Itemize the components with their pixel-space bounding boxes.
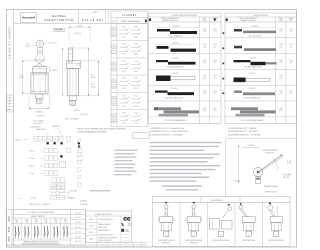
svg-text:GLP xxx: GLP xxx <box>29 151 35 153</box>
svg-text:-40 C +85: -40 C +85 <box>75 217 81 219</box>
svg-text:10 N: 10 N <box>279 76 282 78</box>
svg-text:11 12: 11 12 <box>122 71 126 73</box>
figure 5 panel 3 lever top dark dot <box>228 204 230 206</box>
svg-text:10 N: 10 N <box>213 28 216 30</box>
svg-text:33 34: 33 34 <box>134 105 138 107</box>
figure 2 row 6 separator <box>111 109 148 111</box>
ordering tree option row E boxes <box>52 178 56 183</box>
svg-text:3.14 (79.8): 3.14 (79.8) <box>172 73 179 75</box>
figure 4 row 1 dark nub <box>234 29 242 32</box>
svg-text:2 : 1: 2 : 1 <box>125 245 128 247</box>
ratings table switch symbol 5 <box>53 226 55 239</box>
svg-text:11 12: 11 12 <box>122 88 126 90</box>
ratings table column line 4 <box>50 218 52 240</box>
figure 3 row 1 lever bar short segment <box>157 29 170 32</box>
svg-text:HONEYWELL INC FREEPORT: HONEYWELL INC FREEPORT <box>99 237 118 239</box>
figure 5 panel switch lever top dark dot <box>165 202 167 204</box>
figure 3 row 6 dark nub <box>154 107 158 110</box>
svg-text:R01 1xx: R01 1xx <box>29 166 35 168</box>
figure 4 row 4 rod outline <box>246 78 270 81</box>
figure 5 panel number box <box>246 231 251 236</box>
svg-text:21 22: 21 22 <box>122 113 126 115</box>
svg-text:HIGH ACTUATION: HIGH ACTUATION <box>253 14 268 17</box>
svg-text:21 22: 21 22 <box>122 26 126 28</box>
svg-text:10 N: 10 N <box>289 44 292 46</box>
figure 2 row 4 contact circuit diagram <box>120 81 127 83</box>
svg-text:-40 C +85: -40 C +85 <box>75 241 81 243</box>
notes list rev box <box>133 133 150 139</box>
ratings table column header band <box>12 222 71 224</box>
figure 5 panel number box <box>164 231 169 236</box>
svg-text:13 14: 13 14 <box>134 113 138 115</box>
svg-text:11 12: 11 12 <box>122 36 126 38</box>
svg-text:10 N: 10 N <box>213 76 216 78</box>
figure 4 title row <box>225 16 296 18</box>
ratings table switch symbol 4 <box>43 226 45 239</box>
svg-text:4: 4 <box>44 139 45 141</box>
svg-text:1.57 [39.9]: 1.57 [39.9] <box>36 116 44 118</box>
ordering tree option row C large box <box>59 162 66 168</box>
svg-text:CKT: CKT <box>112 21 115 23</box>
svg-text:2.0 (50.8): 2.0 (50.8) <box>252 26 258 28</box>
figure 4 row 2 gray bar <box>244 48 276 51</box>
figure 4 row 1 dimension marks <box>234 26 276 28</box>
notes list marker boxes column <box>78 139 81 142</box>
svg-text:OPER.: OPER. <box>279 18 284 20</box>
UL diagonal mark <box>122 223 124 226</box>
figure 4 row 3 gray extension <box>266 62 277 64</box>
figure 4 row 3 lever bar thin black <box>234 60 251 62</box>
svg-text:1.50 (38.1): 1.50 (38.1) <box>171 88 178 90</box>
svg-text:33 34: 33 34 <box>134 54 138 56</box>
svg-text:0X: 0X <box>54 139 56 141</box>
svg-text:CHK BY: CHK BY <box>89 225 94 227</box>
figure 3 row 4 lever black block <box>156 76 171 82</box>
svg-text:-40 C +85: -40 C +85 <box>75 227 81 229</box>
figure 3 row separator 6 <box>148 116 221 118</box>
svg-text:3.14 (79.8): 3.14 (79.8) <box>249 73 256 75</box>
ratings table switch symbol 1 <box>14 226 16 239</box>
svg-text:2.50: 2.50 <box>20 75 23 77</box>
figure 2 row 2 ckt boxes <box>112 45 116 49</box>
svg-text:0X: 0X <box>49 139 51 141</box>
figure 1 front view bottom dimension line <box>29 107 49 109</box>
svg-text:[106.7]: [106.7] <box>91 86 96 88</box>
notes paragraph lines <box>150 142 222 144</box>
svg-text:O .31 [7.9]: O .31 [7.9] <box>233 180 240 182</box>
figure 2 header dark mark <box>145 20 147 23</box>
svg-text:21-22: 21-22 <box>54 224 58 226</box>
svg-text:SEE NOTE: SEE NOTE <box>52 126 60 128</box>
figure 1 side view centerline <box>72 46 74 107</box>
lever figure top dimension arrows <box>243 146 261 148</box>
figure 2 row 5 ckt boxes <box>112 96 116 100</box>
figure 1 front view left dimension chain <box>22 60 24 94</box>
figure 5 panel 5 roller circle <box>268 205 273 210</box>
svg-text:AC15: AC15 <box>8 236 11 242</box>
figure 2 header row <box>111 22 148 24</box>
figure 4 row separator 2 <box>225 53 296 55</box>
ratings table column line 5 <box>60 218 62 240</box>
figure 1 side view body <box>67 69 78 96</box>
svg-text:10 N: 10 N <box>203 91 206 93</box>
figure 3 row 3 lever bar short segment <box>156 60 168 62</box>
bottom title block header row <box>86 215 132 217</box>
svg-text:FORCE: FORCE <box>202 20 207 22</box>
svg-text:13 14: 13 14 <box>134 95 138 97</box>
figure 2 table outline <box>111 11 148 127</box>
figure 2 row 4 separator <box>111 74 148 76</box>
figure 3 row separator 4 <box>148 84 221 86</box>
ordering tree option row G boxes <box>52 193 56 198</box>
figure 5 panel 4 switch body <box>242 217 255 223</box>
svg-text:7.16: 7.16 <box>91 75 94 77</box>
svg-text:LOW ACTUATION FOR LEVERS: LOW ACTUATION FOR LEVERS <box>172 14 198 17</box>
figure 3 title row <box>148 16 221 18</box>
figure 2 row 2 contact circuit diagram <box>120 46 127 48</box>
figure 5 panel number box <box>273 231 278 236</box>
svg-text:OPER.: OPER. <box>202 18 207 20</box>
svg-text:11 12: 11 12 <box>122 105 126 107</box>
svg-text:10 N: 10 N <box>203 60 206 62</box>
figure 4 row 1 gray bar <box>243 31 276 34</box>
figure 3 row 2 lever bar short segment <box>157 46 169 49</box>
certification circle mark <box>128 223 131 226</box>
figure 2 row 1 contact circuit diagram <box>120 29 127 31</box>
figure 4 row 5 gray nub <box>234 91 242 93</box>
svg-text:0X: 0X <box>60 139 62 141</box>
figure 3 row 2 dimension marks <box>156 43 196 45</box>
svg-text:10 N: 10 N <box>279 91 282 93</box>
svg-text:SHOWN (TYP): SHOWN (TYP) <box>265 153 275 155</box>
svg-text:21 22: 21 22 <box>122 78 126 80</box>
figure 3 row 3 lever bar long segment <box>168 62 196 65</box>
figure 2 title row <box>111 17 148 19</box>
figure 3 row 5 lever bar short segment <box>155 91 168 93</box>
svg-text:21 22: 21 22 <box>122 95 126 97</box>
lever figure vertical dimension line <box>238 145 240 183</box>
svg-text:13 14: 13 14 <box>134 78 138 80</box>
notes list bottom text line <box>90 190 110 192</box>
svg-text:S A F E T Y S W I T C H: S A F E T Y S W I T C H <box>44 18 73 22</box>
figure 4 row 4 black block <box>234 78 246 83</box>
figure 5 panel switch drawing <box>192 205 196 209</box>
ordering tree main row boxes group 1 <box>34 136 38 141</box>
ratings table left narrow column <box>11 210 13 245</box>
figure 3 table outline <box>148 13 221 124</box>
ratings table column line 2 <box>30 218 32 240</box>
figure 1 front view body <box>31 73 48 94</box>
figure 5 header label cell <box>201 196 240 202</box>
CE mark <box>123 217 127 221</box>
svg-text:[63.5]: [63.5] <box>20 77 24 79</box>
figure 4 column lines <box>275 17 277 124</box>
svg-text:[27.9]: [27.9] <box>26 46 30 48</box>
ratings table column line 1 <box>21 218 23 240</box>
ratings table switch symbol 3 <box>34 226 36 239</box>
figure 4 table outline <box>225 13 296 124</box>
figure 1 front view centerline <box>39 39 41 109</box>
figure 3 header row <box>148 21 221 23</box>
svg-text:4.20: 4.20 <box>91 84 94 86</box>
svg-text:M20 X 1.5 CONDUIT: M20 X 1.5 CONDUIT <box>65 119 79 121</box>
figure 5 outer box <box>153 202 291 246</box>
figure 3 header second dark mark <box>214 18 216 20</box>
ratings table switch symbol 2 <box>24 226 26 239</box>
figure 5 panel switch drawing <box>164 205 168 209</box>
svg-text:-40 C +85: -40 C +85 <box>75 222 81 224</box>
svg-text:1.57 [39.9]: 1.57 [39.9] <box>80 114 88 116</box>
svg-text:21-22: 21-22 <box>44 224 48 226</box>
figure 4 left margin row marks <box>222 32 224 34</box>
ordering tree option row B black square <box>60 155 62 157</box>
svg-text:1.18 [30.0]: 1.18 [30.0] <box>35 112 43 114</box>
svg-text:G L O B A L: G L O B A L <box>52 14 67 18</box>
svg-text:LEVER GLZ51: LEVER GLZ51 <box>162 242 171 244</box>
figure 5 panel divider 4 <box>262 202 264 246</box>
figure 2 row 5 contact circuit diagram <box>120 98 127 100</box>
figure 4 row 3 lever bar thick black <box>251 62 266 65</box>
svg-text:Honeywell: Honeywell <box>22 16 36 20</box>
figure 1 front view mounting holes <box>32 74 34 76</box>
svg-text:10 N: 10 N <box>289 28 292 30</box>
bottom title block left column <box>96 216 98 242</box>
figure 4 row separator 4 <box>225 84 296 86</box>
figure 3 row separator 3 <box>148 68 221 70</box>
ratings table switch symbols row <box>12 239 71 241</box>
svg-text:10 N: 10 N <box>213 44 216 46</box>
figure 5 panel number box <box>191 231 196 236</box>
figure 2 row 5 separator <box>111 91 148 93</box>
figure 1 front view lever fork <box>37 47 39 54</box>
svg-text:1.50 (38.1): 1.50 (38.1) <box>173 26 180 28</box>
svg-text:13 14: 13 14 <box>134 61 138 63</box>
svg-text:.50 [12.7]: .50 [12.7] <box>74 33 81 35</box>
svg-text:10 N: 10 N <box>289 60 292 62</box>
svg-text:10 N: 10 N <box>203 28 206 30</box>
svg-text:4-13/32 [111.9]: 4-13/32 [111.9] <box>30 126 41 128</box>
svg-text:DR. BY: DR. BY <box>89 219 93 221</box>
svg-text:33 34: 33 34 <box>134 71 138 73</box>
lever figure separator line <box>225 139 227 197</box>
svg-text:10 N: 10 N <box>279 108 282 110</box>
svg-text:21-22: 21-22 <box>25 224 29 226</box>
svg-text:5x7 xxx: 5x7 xxx <box>29 158 35 160</box>
svg-text:+ 5O5*: + 5O5* <box>68 198 73 200</box>
figure 2 row 4 ckt boxes <box>112 79 116 83</box>
svg-text:F I G U R E 5: F I G U R E 5 <box>210 200 223 202</box>
svg-text:CONT. EQ.: CONT. EQ. <box>123 237 130 239</box>
svg-text:AC15: AC15 <box>8 226 11 232</box>
figure 1 front view conduit boss <box>36 94 43 98</box>
certification box <box>120 216 122 242</box>
figure 5 panel 4 lever top dark dot <box>240 203 242 205</box>
svg-text:LEVER GLZ52: LEVER GLZ52 <box>189 242 198 244</box>
title block bottom border <box>14 22 149 24</box>
figure 3 header dark mark <box>149 18 151 21</box>
ordering tree black marker squares <box>47 142 49 144</box>
figure 2 row 3 contact circuit diagram <box>120 64 127 66</box>
figure 5 panel 5 switch body <box>270 217 282 223</box>
figure 5 panel divider 3 <box>234 202 236 246</box>
svg-text:13 14: 13 14 <box>134 44 138 46</box>
figure 5 panel switch lever top dark dot <box>193 202 195 204</box>
figure 4 row 6 gray lever upper bar <box>231 107 258 110</box>
svg-text:21-22: 21-22 <box>64 224 68 226</box>
svg-text:10 N: 10 N <box>289 91 292 93</box>
figure 2 row 2 separator <box>111 40 148 42</box>
ordering tree main row end box <box>67 136 71 141</box>
figure 3 row 6 gray lever upper bar <box>158 107 181 110</box>
svg-text:11 12: 11 12 <box>122 54 126 56</box>
svg-text:-40 C +85: -40 C +85 <box>75 236 81 238</box>
svg-text:33 34: 33 34 <box>134 88 138 90</box>
figure 1 front view roller circle <box>36 40 44 48</box>
figure 3 column lines <box>198 17 200 124</box>
figure 4 row separator 6 <box>225 116 296 118</box>
figure 5 panel 4 angled lever with roller <box>239 205 243 209</box>
figure 2 row 6 contact circuit diagram <box>120 115 127 117</box>
figure 3 row separator 5 <box>148 100 221 102</box>
svg-text:10 N: 10 N <box>213 91 216 93</box>
svg-text:10 N: 10 N <box>279 28 282 30</box>
figure 4 header dark mark <box>226 18 228 21</box>
svg-text:FREE POSITION: FREE POSITION <box>266 192 277 194</box>
svg-text:CAD FILE GTL 50042551: CAD FILE GTL 50042551 <box>9 26 12 60</box>
svg-text:+OXB --OX-XO+ +OXB2 / 8: +OXB --OX-XO+ +OXB2 / 8 <box>28 204 50 206</box>
figure 1 side view left dimension line <box>62 48 64 96</box>
figure 3 row 1 dimension marks <box>157 26 197 28</box>
ordering bottom row boxes 2 <box>50 188 57 192</box>
svg-text:+ O +: + O + <box>18 198 22 200</box>
ordering tree main row boxes group 2 <box>47 136 52 141</box>
svg-text:O .59: O .59 <box>287 160 291 162</box>
svg-text:M5 TORX: M5 TORX <box>283 177 289 179</box>
svg-text:AC15: AC15 <box>8 216 11 222</box>
figure 5 panel divider 2 <box>207 202 209 246</box>
svg-text:-40 C +85: -40 C +85 <box>75 232 81 234</box>
ratings table column line 3 <box>40 218 42 240</box>
svg-text:10 N: 10 N <box>213 60 216 62</box>
figure 5 panel 5 lever arms <box>271 210 275 217</box>
figure 1 front view head block <box>33 67 47 73</box>
svg-text:"-SK-3": "-SK-3" <box>92 12 99 14</box>
bottom title block outline <box>86 211 132 242</box>
svg-text:[15.0]: [15.0] <box>287 163 291 165</box>
svg-text:FIGURE 1: FIGURE 1 <box>54 28 66 31</box>
svg-text:LISTED IND.: LISTED IND. <box>123 234 131 236</box>
ratings table outline <box>7 210 86 245</box>
figure 4 row 6 gray lever third bar <box>236 114 265 117</box>
svg-text:21-22: 21-22 <box>35 224 39 226</box>
figure 5 panel number box <box>218 231 223 236</box>
bottom strip cell ticks <box>96 242 98 247</box>
figure 3 row 6 gray lever third bar <box>159 114 189 117</box>
svg-text:1.50 (38.1): 1.50 (38.1) <box>172 43 179 45</box>
svg-text:1111: 1111 <box>7 110 11 112</box>
notes list dark square marker <box>78 145 80 147</box>
svg-text:4: 4 <box>40 139 41 141</box>
left margin strip <box>13 10 15 248</box>
figure 2 row 1 ckt boxes <box>112 27 116 31</box>
honeywell logo box <box>21 13 37 22</box>
svg-text:50042551: 50042551 <box>100 244 106 246</box>
figure 5 header bar <box>153 196 291 202</box>
figure 3 row 5 lever bar long segment <box>168 92 195 95</box>
figure 1 side view right dimension chain outer <box>88 48 90 96</box>
svg-text:1.89 [48.0]: 1.89 [48.0] <box>247 145 255 147</box>
svg-text:1/1: 1/1 <box>143 244 145 246</box>
svg-text:13 14: 13 14 <box>134 26 138 28</box>
svg-text:1.43 [36.3]: 1.43 [36.3] <box>50 70 58 72</box>
svg-text:10 N: 10 N <box>213 108 216 110</box>
svg-text:+ 5U5/OO5+: + 5U5/OO5+ <box>68 191 77 193</box>
svg-text:2.0 (50.8): 2.0 (50.8) <box>249 88 255 90</box>
figure 3 row separator 2 <box>148 53 221 55</box>
lever figure rotation arc <box>273 158 278 171</box>
figure 3 row 1 lever bar long segment <box>170 31 197 34</box>
figure 1 front view hourglass flange <box>35 60 45 67</box>
figure 3 row separator 1 <box>148 37 221 39</box>
figure 3 row 6 gray lever lower bar <box>164 110 200 113</box>
CSA dark marks <box>121 229 124 232</box>
svg-text:+O+O8: +O+O8 <box>30 198 36 200</box>
figure 1 front view head right dimension <box>48 67 50 73</box>
ratings table header band <box>12 213 71 215</box>
svg-text:10 N: 10 N <box>279 44 282 46</box>
title block divider lines <box>78 10 80 24</box>
figure 3 row 2 lever bar long segment <box>171 49 197 52</box>
svg-text:21 22: 21 22 <box>122 61 126 63</box>
svg-text:4: 4 <box>35 139 36 141</box>
svg-text:G T L - L 6 - 0 X 1: G T L - L 6 - 0 X 1 <box>82 18 104 22</box>
lever figure hub circles <box>253 167 262 176</box>
figure 4 row 5 gray bar <box>243 92 275 95</box>
ordering tree option row F boxes <box>52 185 56 190</box>
figure 5 panel divider 1 <box>179 202 181 246</box>
svg-text:5x7 xxx: 5x7 xxx <box>29 173 35 175</box>
svg-text:11 12: 11 12 <box>122 123 126 125</box>
svg-text:10 N: 10 N <box>279 60 282 62</box>
figure 2 row 3 ckt boxes <box>112 62 116 66</box>
svg-text:SET SCREW: SET SCREW <box>283 175 292 177</box>
svg-text:.79 [20.1]: .79 [20.1] <box>73 110 80 112</box>
figure 1 side view conduit <box>69 96 76 101</box>
ratings table silver contacts band <box>12 217 71 219</box>
figure 1 side view roller edge <box>68 48 72 62</box>
svg-text:1.50 (38.1): 1.50 (38.1) <box>172 58 179 60</box>
ratings table switch symbol 6 <box>63 226 65 239</box>
figure 2 row 6 ckt boxes <box>112 114 116 118</box>
svg-text:2 X O .22 [5.6]: 2 X O .22 [5.6] <box>33 121 44 123</box>
svg-text:33 34: 33 34 <box>134 123 138 125</box>
svg-text:[181.9]: [181.9] <box>91 77 96 79</box>
svg-text:21 22: 21 22 <box>122 44 126 46</box>
figure 3 row 4 rod outline <box>171 77 196 80</box>
svg-text:MTG. HOLES: MTG. HOLES <box>33 123 42 125</box>
ordering bottom row boxes 1 <box>50 183 57 187</box>
notes paragraph centered closing lines <box>162 185 202 187</box>
svg-text:F I G U R E 2: F I G U R E 2 <box>122 15 137 17</box>
svg-text:10 N: 10 N <box>203 108 206 110</box>
svg-text:GTLC: GTLC <box>15 140 21 142</box>
figure 5 panel 5 lever top dark dot <box>269 203 271 205</box>
lever figure shaft below hub <box>255 177 260 184</box>
svg-text:DIMENSIONS IN (mm): DIMENSIONS IN (mm) <box>162 20 178 22</box>
figure 5 panel 3 side view drawing <box>228 207 232 211</box>
svg-text:10 N: 10 N <box>203 76 206 78</box>
svg-text:FORCE: FORCE <box>278 20 283 22</box>
